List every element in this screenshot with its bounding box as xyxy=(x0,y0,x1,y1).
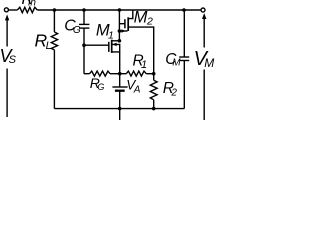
svg-text:2: 2 xyxy=(170,88,177,99)
resistor R_1 xyxy=(120,71,154,76)
label R_in xyxy=(22,0,37,9)
svg-text:S: S xyxy=(9,54,17,66)
svg-text:A: A xyxy=(133,84,141,95)
label V_S xyxy=(0,46,17,66)
label V_A xyxy=(126,78,140,96)
capacitor C_M xyxy=(179,10,189,109)
battery V_A xyxy=(112,74,127,120)
node K (R_2 bottom junction) xyxy=(152,107,156,111)
node D (C_M tap) xyxy=(182,8,186,12)
resistor R_in xyxy=(17,7,37,12)
node E (gate of M1 junction) xyxy=(82,43,86,47)
svg-text:2: 2 xyxy=(146,16,153,28)
svg-text:M: M xyxy=(204,56,214,70)
svg-text:in: in xyxy=(28,0,36,9)
svg-text:M: M xyxy=(172,58,181,69)
svg-text:G: G xyxy=(73,25,81,36)
label R_L xyxy=(35,31,52,52)
node I (V_A bottom junction) xyxy=(118,107,122,111)
transistor M1 xyxy=(109,40,120,74)
resistor R_L xyxy=(51,10,57,109)
svg-text:G: G xyxy=(97,82,104,92)
wire gate-drain vertical line xyxy=(118,10,120,41)
label R_G xyxy=(90,75,105,92)
output terminal xyxy=(201,8,205,12)
transistor M2 xyxy=(119,10,153,74)
resistor R_2 xyxy=(150,74,157,109)
label C_G xyxy=(64,18,81,36)
node F (M2 bulk tap) xyxy=(118,29,122,33)
svg-text:1: 1 xyxy=(141,59,147,71)
node B (C_G tap) xyxy=(82,8,86,12)
wire top rail xyxy=(37,9,201,11)
node A (R_L tap) xyxy=(53,8,57,12)
node G (M1 drain junction) xyxy=(118,39,122,43)
wire bottom node line xyxy=(54,108,184,110)
label M1 xyxy=(96,22,114,42)
label R_1 xyxy=(133,53,148,71)
svg-text:1: 1 xyxy=(108,30,114,42)
capacitor C_G xyxy=(79,10,89,74)
label C_M xyxy=(165,51,181,68)
input terminal xyxy=(4,8,8,12)
measure V_M arrow xyxy=(202,13,206,120)
wire M2 gate tap xyxy=(119,23,124,25)
label R_2 xyxy=(163,80,178,99)
resistor R_G xyxy=(84,71,120,76)
node C (M2 gate line tap) xyxy=(118,8,122,12)
node H (R_G / R_1 / V_A junction) xyxy=(118,72,122,76)
wire M1 gate lead xyxy=(84,44,108,46)
svg-text:M: M xyxy=(134,8,148,26)
svg-text:L: L xyxy=(46,40,52,52)
source V_S arrow xyxy=(5,14,9,117)
node J (M2 source / R_1 / R_2 junction) xyxy=(152,72,156,76)
label M2 xyxy=(134,8,153,27)
label V_M xyxy=(194,48,215,70)
wire top rail left xyxy=(9,9,18,11)
